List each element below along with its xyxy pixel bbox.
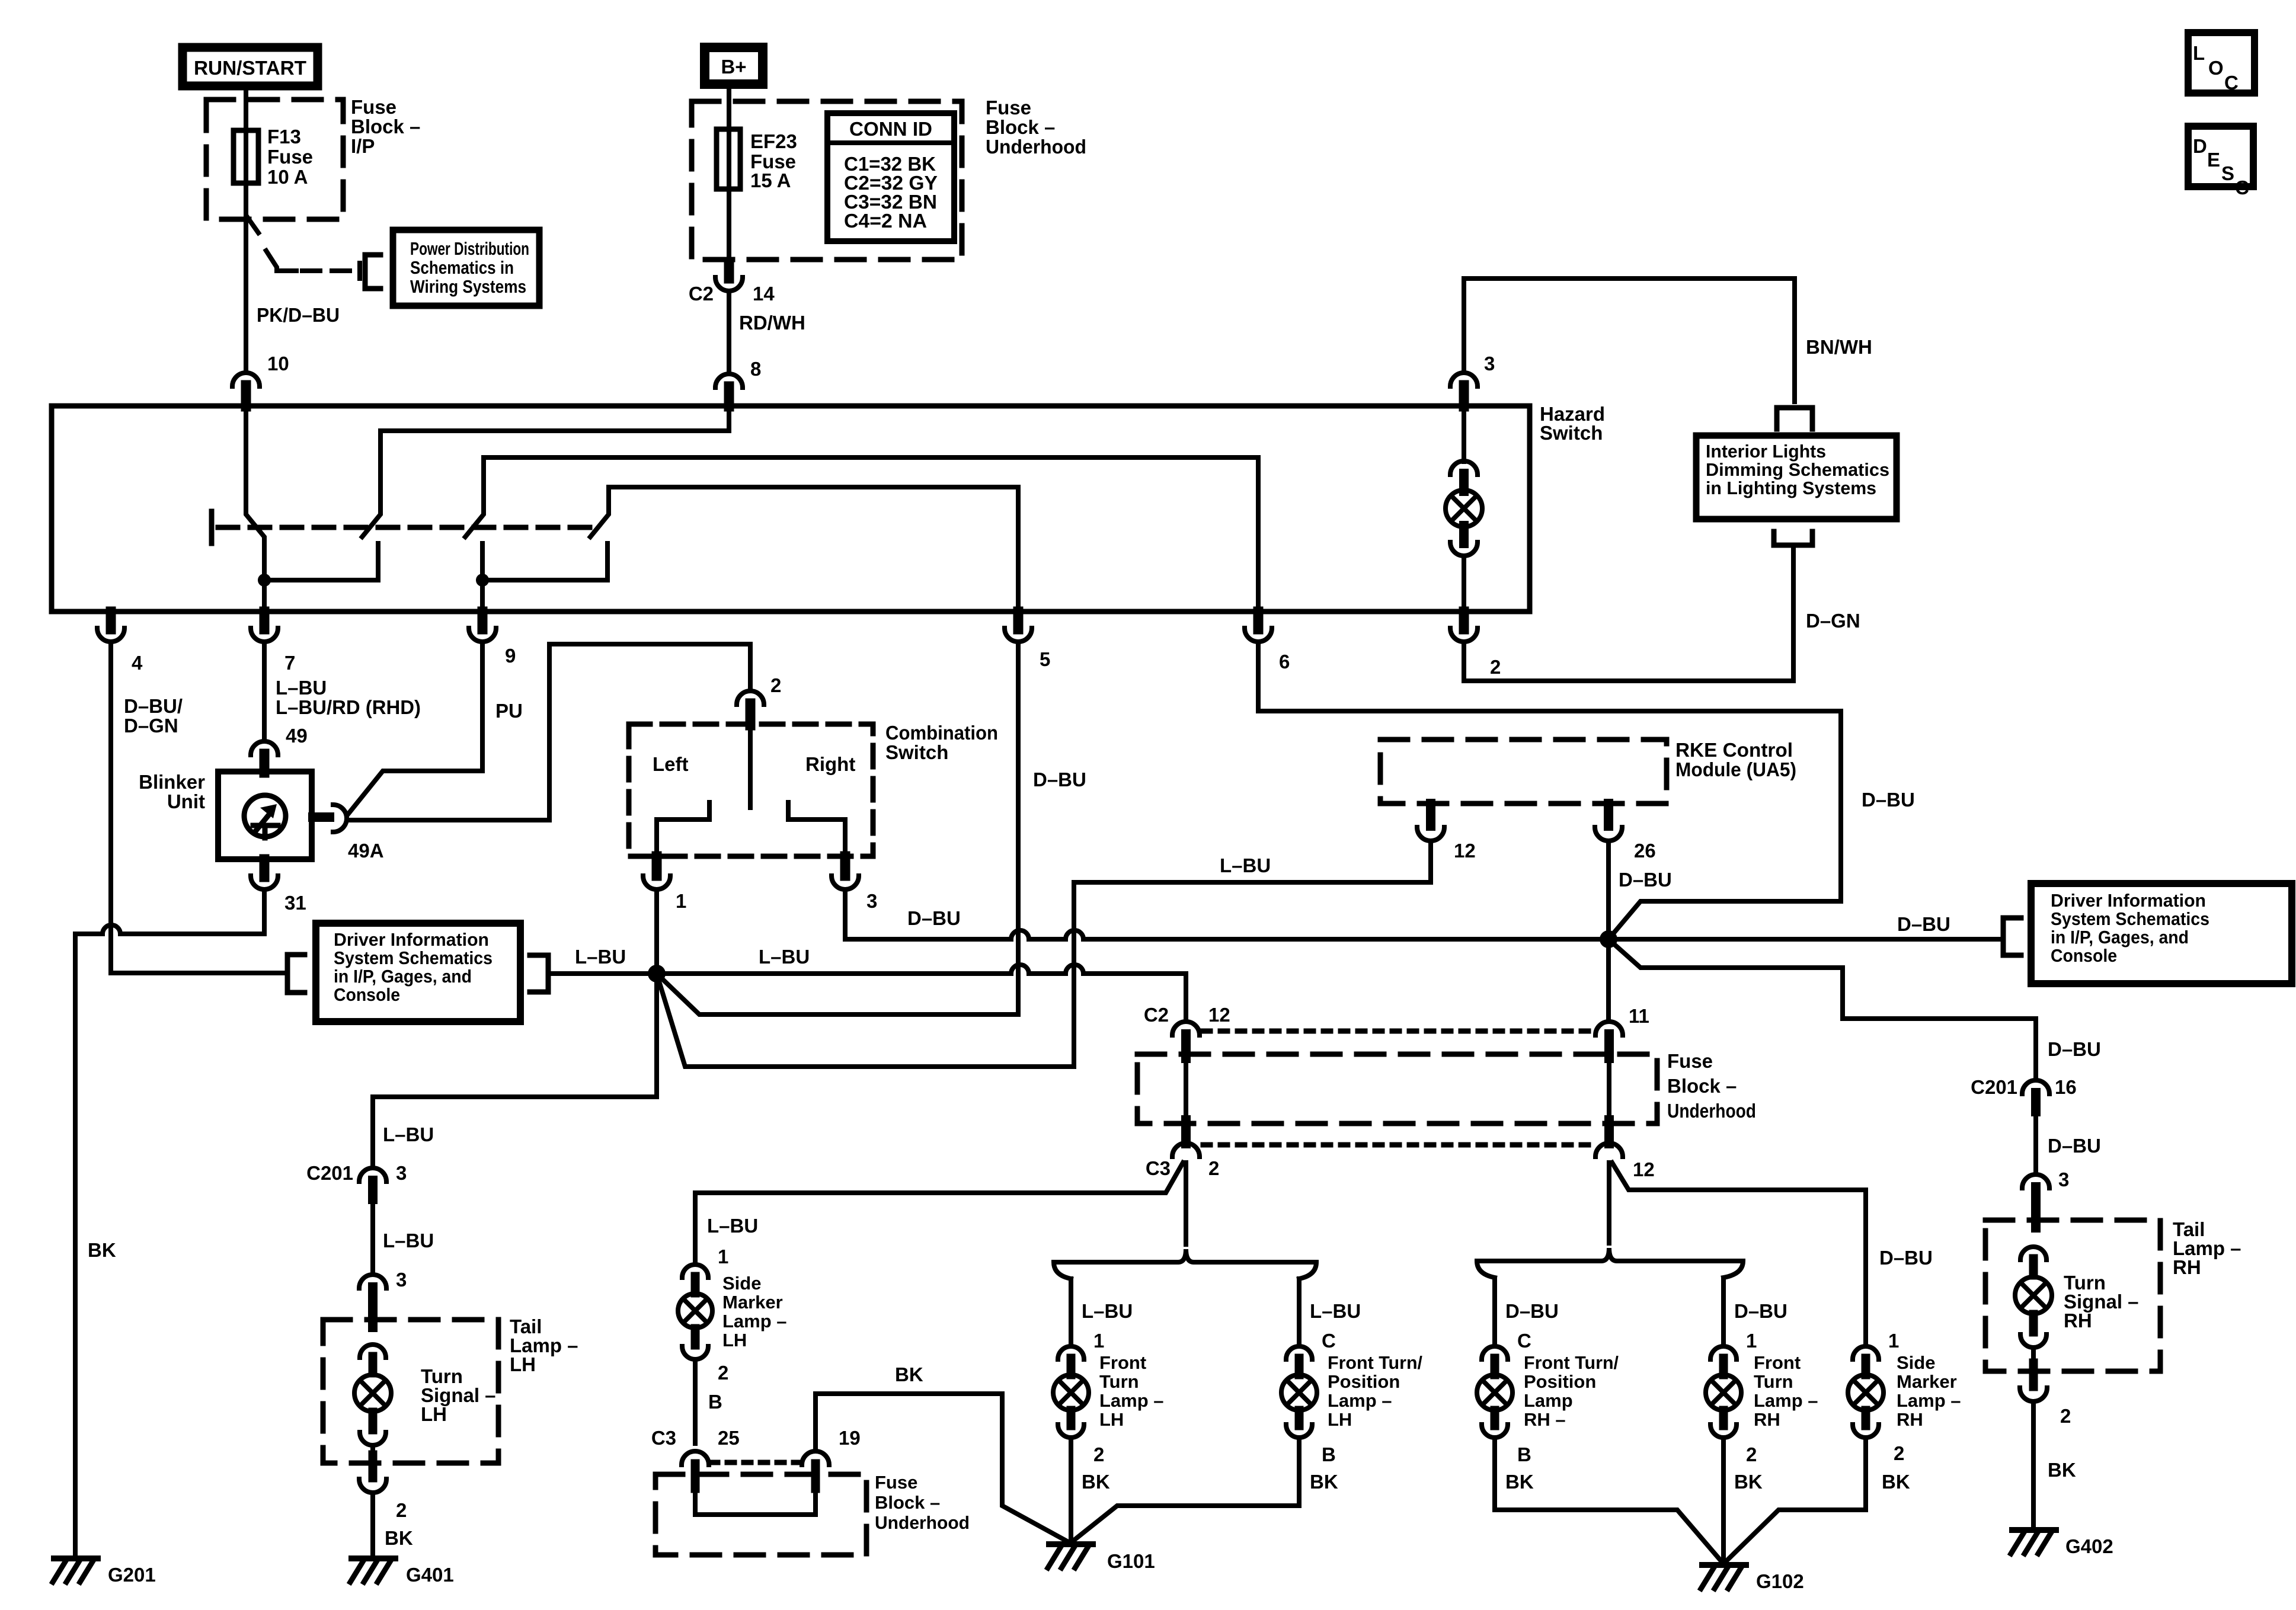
switch mechanical T-bar [209, 511, 215, 543]
svg-text:Interior Lights: Interior Lights [1706, 441, 1826, 462]
wire PU from pin 9 to 49A [348, 642, 482, 814]
svg-text:C3: C3 [1146, 1157, 1171, 1179]
fuse block underhood dashed box [692, 101, 962, 260]
connector RKE pin 12 [1426, 804, 1435, 826]
schematic bracket right of Driver Information box [530, 955, 548, 992]
svg-text:Underhood: Underhood [986, 136, 1086, 158]
svg-text:in I/P, Gages, and: in I/P, Gages, and [334, 966, 472, 987]
svg-text:Console: Console [2051, 945, 2117, 966]
connector pin 6 [1253, 612, 1264, 629]
turn signal / hazard switch assembly box [52, 406, 1530, 612]
svg-text:Side: Side [722, 1273, 761, 1294]
svg-text:Driver Information: Driver Information [2051, 890, 2206, 911]
svg-text:Lamp –: Lamp – [1328, 1390, 1392, 1411]
svg-text:D: D [2193, 135, 2207, 157]
svg-text:Front Turn/: Front Turn/ [1524, 1352, 1619, 1373]
svg-text:BK: BK [1310, 1471, 1338, 1493]
svg-text:C4=2 NA: C4=2 NA [844, 210, 927, 232]
connector pin 1 (left turn output) [652, 856, 662, 876]
svg-text:L–BU: L–BU [759, 946, 810, 968]
svg-text:2: 2 [1490, 656, 1501, 678]
front turn/position lamp LH [1297, 1279, 1302, 1346]
svg-text:2: 2 [1894, 1442, 1904, 1464]
svg-text:3: 3 [396, 1162, 407, 1184]
connector pin 4 [106, 612, 116, 629]
svg-text:BK: BK [1734, 1471, 1763, 1493]
svg-text:CONN ID: CONN ID [849, 118, 932, 140]
svg-text:Underhood: Underhood [1667, 1100, 1756, 1122]
wire BK front turn/position LH to G101 [1070, 1438, 1299, 1543]
svg-text:16: 16 [2055, 1076, 2077, 1098]
svg-text:BK: BK [1082, 1471, 1110, 1493]
reference box: Interior Lights Dimming Schematics [1696, 436, 1897, 519]
wire B+ to fuse EF23 [727, 84, 731, 263]
svg-text:Power Distribution: Power Distribution [410, 238, 529, 259]
hazard blade b4 + feeder to pin 5 [590, 487, 1018, 612]
svg-text:BK: BK [2048, 1459, 2076, 1481]
connector pin 10 into switch assembly [232, 373, 260, 386]
wire BK front turn/position RH to G102 [1495, 1438, 1723, 1564]
svg-text:3: 3 [2058, 1169, 2069, 1190]
wire D-BU comb pin 3 to junction to Driver Information right (hops) [845, 889, 1011, 939]
svg-text:Lamp –: Lamp – [722, 1311, 787, 1331]
svg-text:Side: Side [1897, 1352, 1935, 1373]
hazard blade b2 + feeder from pin 8 [362, 406, 729, 537]
front turn lamp RH [1721, 1279, 1726, 1346]
fuse block underhood dashed box (middle) [1137, 1054, 1657, 1124]
svg-text:Position: Position [1328, 1371, 1400, 1392]
svg-text:L–BU: L–BU [1310, 1300, 1361, 1322]
svg-text:C201: C201 [1971, 1076, 2017, 1098]
wire BK front turn LH to G101 [1069, 1438, 1073, 1543]
LOC tag box [2188, 33, 2255, 93]
svg-text:Turn: Turn [1754, 1371, 1793, 1392]
hazard blade b3 + feeder to pin 6 [465, 457, 1258, 612]
svg-text:C2: C2 [1144, 1004, 1169, 1026]
svg-text:D–BU: D–BU [1862, 789, 1915, 811]
svg-text:Right: Right [805, 753, 855, 775]
fuse block I/P dashed box [206, 100, 343, 219]
svg-text:L: L [2193, 42, 2205, 64]
svg-text:Combination: Combination [885, 722, 998, 744]
junction splice (L-BU) [648, 965, 666, 982]
wire RD/WH [727, 291, 731, 373]
svg-text:11: 11 [1629, 1005, 1649, 1027]
DESC tag box [2188, 126, 2253, 187]
wire L-BU driver info to junction [548, 971, 657, 976]
wire BK 19 to G101 [816, 1394, 1070, 1543]
svg-text:D–BU: D–BU [2048, 1135, 2101, 1157]
wire 49A to combination switch pin 2 [347, 644, 750, 820]
svg-text:G401: G401 [406, 1564, 454, 1586]
wire D-BU RKE pin 26 through junction to fuse block pin 11 [1606, 841, 1611, 1020]
svg-text:Left: Left [653, 753, 689, 775]
svg-text:25: 25 [718, 1427, 740, 1449]
svg-text:F13: F13 [267, 126, 301, 148]
svg-text:12: 12 [1208, 1004, 1230, 1026]
svg-text:L–BU: L–BU [1220, 854, 1271, 876]
svg-text:1: 1 [1746, 1330, 1757, 1352]
svg-text:PK/D–BU: PK/D–BU [257, 304, 340, 326]
svg-text:Console: Console [334, 984, 400, 1005]
svg-text:Fuse: Fuse [875, 1472, 917, 1493]
wire PK/D-BU [244, 218, 248, 372]
wire D-BU pin 12 to side marker RH [1612, 1163, 1866, 1346]
svg-text:2: 2 [2060, 1405, 2071, 1427]
ignition switch blade (RUN/START) [247, 217, 258, 233]
wire BK to G401 [370, 1493, 375, 1558]
svg-text:8: 8 [750, 358, 761, 380]
svg-text:7: 7 [284, 652, 295, 674]
svg-text:6: 6 [1279, 651, 1290, 673]
svg-text:2: 2 [1746, 1443, 1757, 1465]
svg-text:15 A: 15 A [750, 169, 791, 191]
svg-text:RH: RH [2064, 1310, 2092, 1331]
brace splice right (front RH lamps) [1477, 1248, 1743, 1278]
svg-text:Lamp –: Lamp – [1754, 1390, 1818, 1411]
svg-text:RKE Control: RKE Control [1675, 739, 1793, 761]
wire L-BU C3-2 to side marker LH [695, 1163, 1183, 1265]
svg-text:S: S [2221, 162, 2234, 184]
svg-text:C: C [1517, 1330, 1531, 1352]
svg-text:12: 12 [1633, 1158, 1655, 1180]
reference box: Power Distribution Schematics in Wiring Systems [393, 230, 539, 306]
svg-text:12: 12 [1454, 840, 1476, 862]
svg-text:RH: RH [1754, 1409, 1780, 1430]
connector pin 12 (lower) [1604, 1120, 1614, 1144]
svg-text:Module (UA5): Module (UA5) [1675, 758, 1796, 780]
svg-text:1: 1 [1093, 1330, 1104, 1352]
svg-text:L–BU: L–BU [276, 677, 327, 699]
svg-text:Front: Front [1754, 1352, 1801, 1373]
svg-text:5: 5 [1040, 648, 1050, 670]
svg-text:G402: G402 [2065, 1535, 2113, 1557]
svg-text:1: 1 [718, 1246, 728, 1267]
connector pin 8 into switch assembly [715, 374, 743, 388]
svg-text:D–BU: D–BU [907, 907, 961, 929]
svg-text:C201: C201 [306, 1162, 353, 1184]
svg-text:G102: G102 [1756, 1570, 1804, 1592]
svg-text:3: 3 [1484, 353, 1495, 375]
svg-text:49A: 49A [348, 840, 384, 862]
connector 2 (tail RH ground) [2029, 1363, 2038, 1387]
left contact [707, 802, 712, 820]
svg-text:L–BU/RD (RHD): L–BU/RD (RHD) [276, 696, 421, 718]
svg-text:2: 2 [1093, 1443, 1104, 1465]
wire L-BU from pin 7 to blinker [262, 642, 267, 741]
svg-text:L–BU: L–BU [383, 1124, 434, 1145]
connector RKE pin 26 [1604, 804, 1613, 826]
svg-text:LH: LH [421, 1403, 447, 1425]
svg-text:I/P: I/P [351, 135, 375, 157]
svg-text:BK: BK [895, 1363, 923, 1385]
ground G401 [351, 1555, 395, 1561]
svg-text:System Schematics: System Schematics [2051, 908, 2209, 929]
schematic bracket left of Driver Information box [287, 955, 305, 993]
node B+ (battery feed tag) [705, 47, 763, 84]
connector C3 pin 2 [1181, 1120, 1191, 1144]
svg-text:2: 2 [396, 1499, 407, 1521]
svg-text:10 A: 10 A [267, 166, 308, 188]
ground G402 [2012, 1527, 2056, 1533]
wire D-BU to tail lamp RH [2033, 1112, 2038, 1174]
connector C2 pin 14 [724, 263, 734, 279]
right contact [786, 802, 791, 820]
hazard contact b3 fixed / pin 9 wire [480, 543, 485, 612]
svg-text:C: C [2224, 72, 2239, 94]
reference box: Driver Information System Schematics (left) [316, 923, 520, 1022]
schematic bracket left of Driver Information right box [2003, 918, 2021, 955]
blinker unit flasher symbol [244, 795, 286, 837]
fuse block internal U link [695, 1489, 816, 1515]
svg-text:RH: RH [2173, 1256, 2201, 1278]
CONN ID table [827, 113, 954, 241]
svg-text:Lamp –: Lamp – [1897, 1390, 1961, 1411]
svg-text:Schematics in: Schematics in [410, 257, 514, 278]
switch mechanical dashed link [218, 525, 593, 530]
hazard contact b2 fixed [264, 543, 378, 580]
connector pin 5 [1013, 612, 1024, 629]
svg-text:Block –: Block – [875, 1492, 940, 1513]
internal fuse block wires [1184, 1058, 1188, 1120]
svg-text:D–GN: D–GN [1806, 610, 1860, 632]
svg-text:19: 19 [839, 1427, 861, 1449]
svg-text:Lamp –: Lamp – [1099, 1390, 1164, 1411]
svg-text:in I/P, Gages, and: in I/P, Gages, and [2051, 927, 2189, 948]
svg-text:C2: C2 [689, 283, 714, 305]
wire BK front turn RH to G102 [1721, 1438, 1726, 1565]
svg-text:Front: Front [1099, 1352, 1146, 1373]
svg-text:Position: Position [1524, 1371, 1596, 1392]
wire D-BU/D-GN from pin 4 [111, 642, 287, 973]
svg-text:LH: LH [510, 1353, 536, 1375]
svg-text:3: 3 [866, 890, 877, 912]
svg-text:BN/WH: BN/WH [1806, 336, 1872, 358]
svg-text:Fuse: Fuse [351, 96, 396, 118]
tail lamp LH dashed box [323, 1320, 498, 1463]
ground G101 [1049, 1541, 1093, 1547]
schematic bracket to Interior Lights box [1777, 408, 1812, 429]
combination switch dashed box [629, 724, 873, 856]
svg-text:Unit: Unit [167, 790, 205, 812]
connector 49A (blinker output) [313, 812, 330, 822]
svg-text:Marker: Marker [1897, 1371, 1957, 1392]
svg-text:1: 1 [676, 890, 686, 912]
fuse block underhood dashed box (small, bottom) [655, 1474, 866, 1555]
wire L-BU C3-2 down to brace (front LH lamps) [1184, 1163, 1188, 1244]
svg-text:BK: BK [88, 1239, 116, 1261]
svg-text:B+: B+ [721, 56, 746, 78]
svg-text:BK: BK [1505, 1471, 1534, 1493]
svg-text:RD/WH: RD/WH [739, 312, 805, 334]
turn signal RH bulb [2020, 1247, 2046, 1260]
svg-text:Turn: Turn [1099, 1371, 1139, 1392]
reference box: Driver Information System Schematics (right) [2031, 884, 2292, 984]
svg-text:1: 1 [1888, 1330, 1899, 1352]
svg-text:49: 49 [286, 725, 308, 747]
svg-text:10: 10 [267, 353, 289, 375]
svg-text:Marker: Marker [722, 1292, 783, 1313]
svg-text:PU: PU [495, 700, 523, 722]
svg-text:D–BU/: D–BU/ [124, 695, 183, 717]
wire junction to switch pin 5 [657, 642, 1018, 1014]
svg-text:14: 14 [753, 283, 775, 305]
tail lamp RH dashed box [1985, 1220, 2160, 1371]
svg-text:BK: BK [385, 1527, 413, 1549]
svg-text:Block –: Block – [986, 116, 1055, 138]
svg-text:L–BU: L–BU [575, 946, 626, 968]
dotted bus C2-12 to 11 [1203, 1029, 1594, 1034]
svg-text:L–BU: L–BU [1082, 1300, 1133, 1322]
wire D-BU junction to C201-16 (tail RH) [1609, 939, 2036, 1080]
svg-text:G101: G101 [1107, 1550, 1155, 1572]
svg-text:LH: LH [722, 1330, 747, 1350]
svg-text:RUN/START: RUN/START [194, 57, 306, 79]
wire D-GN to hazard pin 2 [1464, 545, 1793, 681]
front turn/position lamp RH [1492, 1279, 1497, 1346]
svg-text:D–BU: D–BU [1619, 869, 1672, 891]
svg-text:in Lighting Systems: in Lighting Systems [1706, 478, 1876, 498]
svg-text:2: 2 [770, 674, 781, 696]
ground G201 [54, 1555, 98, 1561]
RKE control module dashed box [1380, 740, 1667, 804]
wire L-BU junction to RKE pin 12 [657, 841, 1431, 1067]
wire D-BU pin 12 down to brace (front RH lamps) [1607, 1163, 1611, 1243]
ground G102 [1702, 1562, 1746, 1568]
hazard indicator lamp [1462, 406, 1466, 462]
svg-text:Blinker: Blinker [139, 771, 205, 793]
svg-text:C: C [2235, 177, 2249, 199]
svg-text:Wiring Systems: Wiring Systems [410, 276, 526, 297]
svg-text:Fuse: Fuse [267, 146, 313, 168]
svg-text:D–BU: D–BU [1505, 1300, 1559, 1322]
connector pin 9 [478, 612, 488, 629]
svg-text:4: 4 [132, 652, 143, 674]
svg-text:Dimming Schematics: Dimming Schematics [1706, 459, 1889, 480]
connector 3 (tail lamp LH) [359, 1275, 386, 1288]
svg-text:D–BU: D–BU [1897, 913, 1950, 935]
svg-text:L–BU: L–BU [707, 1215, 758, 1237]
svg-text:Front Turn/: Front Turn/ [1328, 1352, 1422, 1373]
svg-text:E: E [2207, 149, 2220, 171]
wire D-BU junction to switch pin 6 [1258, 642, 1841, 939]
mechanical link (dashed) to Power Distribution reference [302, 268, 354, 273]
junction splice (D-BU) [1600, 930, 1617, 948]
wire RUN/START to fuse F13 [244, 88, 248, 218]
svg-text:Fuse: Fuse [1667, 1050, 1713, 1072]
connector pin 3 (right turn output) [840, 856, 850, 876]
svg-text:B: B [708, 1391, 722, 1413]
svg-text:Driver Information: Driver Information [334, 929, 489, 950]
svg-text:D–BU: D–BU [1033, 769, 1086, 790]
svg-text:LH: LH [1328, 1409, 1352, 1430]
svg-text:B: B [1322, 1443, 1336, 1465]
svg-text:L–BU: L–BU [383, 1230, 434, 1251]
svg-text:D–BU: D–BU [1879, 1247, 1933, 1269]
fuse F13 10A [234, 130, 258, 183]
turn signal LH bulb [360, 1345, 386, 1358]
svg-text:Switch: Switch [885, 741, 948, 763]
wire L-BU junction to fuse block C2-12 (hops over D-BU wires) [657, 971, 1011, 976]
svg-text:O: O [2208, 57, 2224, 79]
svg-text:EF23: EF23 [750, 130, 797, 152]
wire L-BU from comb pin 1 through junction down to C201 [373, 889, 657, 1168]
dotted bus C3-2 to 12 [1203, 1142, 1594, 1148]
node RUN/START (power feed tag) [183, 47, 318, 86]
fuse EF23 15A [717, 129, 740, 189]
svg-text:Block –: Block – [1667, 1075, 1737, 1097]
svg-text:RH –: RH – [1524, 1409, 1566, 1430]
dotted bus 25 to 19 [711, 1460, 802, 1465]
connector 49 (blinker unit) [251, 741, 278, 755]
svg-text:26: 26 [1634, 840, 1656, 862]
connector 3 (tail lamp RH) [2022, 1174, 2049, 1188]
svg-text:C3: C3 [651, 1427, 676, 1449]
svg-text:2: 2 [1208, 1157, 1219, 1179]
svg-text:2: 2 [718, 1362, 728, 1384]
svg-text:31: 31 [284, 892, 306, 914]
svg-text:C: C [1322, 1330, 1336, 1352]
svg-text:RH: RH [1897, 1409, 1923, 1430]
hazard contact b4 fixed [482, 543, 607, 580]
svg-text:D–BU: D–BU [2048, 1038, 2101, 1060]
connector 2 (tail LH ground) [369, 1455, 378, 1478]
svg-text:BK: BK [1882, 1471, 1910, 1493]
svg-text:9: 9 [505, 645, 516, 667]
svg-text:B: B [1517, 1443, 1531, 1465]
combination switch pole [748, 724, 753, 808]
connector pin 31 (blinker ground) [260, 859, 270, 877]
svg-text:D–GN: D–GN [124, 715, 178, 737]
connector pin 2 (hazard switch) [1459, 612, 1469, 629]
svg-text:LH: LH [1099, 1409, 1124, 1430]
blinker unit box [218, 772, 312, 859]
svg-text:Block –: Block – [351, 116, 420, 137]
switch common wire from pin 10 to pin 7 [246, 406, 264, 612]
svg-text:3: 3 [396, 1269, 407, 1291]
svg-text:D–BU: D–BU [1734, 1300, 1787, 1322]
connector pin 7 [260, 612, 270, 629]
svg-text:System Schematics: System Schematics [334, 948, 493, 968]
svg-text:Switch: Switch [1540, 422, 1603, 444]
wire BN/WH [1464, 279, 1795, 402]
svg-text:Fuse: Fuse [986, 97, 1031, 119]
wire BK to G402 [2031, 1401, 2036, 1530]
brace splice left (front LH lamps) [1054, 1249, 1316, 1279]
front turn lamp LH [1069, 1279, 1073, 1346]
svg-text:Lamp: Lamp [1524, 1390, 1573, 1411]
wire BK blinker pin31 to G201 (hops over pin4 wire) [120, 889, 264, 934]
svg-text:G201: G201 [108, 1564, 156, 1586]
schematic bracket below Interior Lights box [1774, 532, 1812, 545]
svg-text:Underhood: Underhood [875, 1512, 970, 1533]
